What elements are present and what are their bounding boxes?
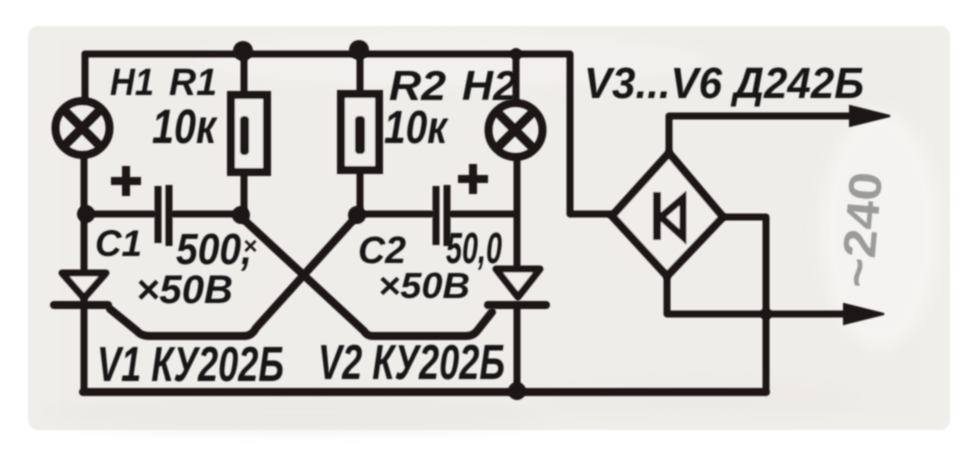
junction node at R2 top [349, 40, 369, 60]
wire: bridge right corner to right vertical down to bottom rail [724, 217, 766, 392]
wire: H2 bottom lead down through node to V2 anode [514, 158, 521, 270]
junction node A (R1 bottom / C1 / V2 gate) [232, 206, 250, 224]
wire: top rail [85, 51, 569, 58]
arrowhead bottom mains [844, 304, 884, 324]
wire: bottom rail [83, 388, 766, 396]
resistor R1 bottom lead [241, 171, 248, 214]
wire: V2 cathode down to bottom rail [514, 306, 521, 392]
svg-text:H2: H2 [462, 62, 517, 109]
thyristor V2 [488, 269, 546, 305]
wire: cross-coupling node B to V1 gate (diagonal, horizontal run) [110, 217, 356, 336]
svg-text:V2 КУ202Б: V2 КУ202Б [318, 336, 505, 390]
resistor R2 top lead [357, 54, 364, 94]
svg-text:10к: 10к [152, 101, 218, 154]
capacitor C1 plates [158, 185, 169, 246]
bridge diode symbol [657, 192, 683, 240]
svg-text:V3...V6 Д242Б: V3...V6 Д242Б [584, 59, 864, 108]
bridge rectifier V3-V6 diamond [612, 153, 723, 276]
svg-text:×50В: ×50В [378, 265, 470, 306]
svg-text:×: × [243, 233, 257, 260]
wire: top rail corner down to bridge AC-left input [570, 54, 612, 214]
resistor R1 [231, 95, 267, 172]
svg-text:R1: R1 [169, 62, 217, 104]
wire: C1 right plate to node A [174, 211, 240, 218]
capacitor C2 polarity plus [458, 164, 488, 194]
wire: C1 horizontal from left rail to plates [86, 211, 153, 218]
lamp H2 [489, 103, 543, 157]
wire: node B to C2 left plate [357, 211, 431, 218]
wire: bridge bottom corner down and arrow line to mains [667, 277, 845, 314]
svg-text:V1 КУ202Б: V1 КУ202Б [97, 338, 284, 392]
svg-text:C1: C1 [95, 223, 142, 264]
svg-text:H1: H1 [110, 62, 154, 104]
junction node crossing at right vertical [760, 308, 772, 320]
svg-text:~240: ~240 [830, 170, 892, 290]
svg-text:500,: 500, [176, 225, 252, 274]
thyristor V1 [54, 273, 108, 305]
wire: left vertical (H1 anode branch) [82, 54, 89, 100]
resistor R1 top lead [241, 54, 248, 96]
resistor R2 bottom lead [357, 169, 364, 214]
wire: bridge top corner up and arrow line to mains [669, 116, 851, 152]
svg-text:×50В: ×50В [136, 268, 233, 312]
resistor R2 [341, 94, 379, 170]
capacitor C1 polarity plus [111, 166, 141, 196]
junction node at H2 top [510, 48, 522, 60]
junction node at R1 top [233, 41, 253, 61]
junction node B (R2 bottom / C2 / V1 gate) [348, 206, 366, 224]
junction node left rail / C1 [77, 205, 95, 223]
lamp H2 top lead [513, 54, 520, 102]
junction node V2 cathode at bottom rail [508, 382, 526, 400]
lamp H1 [56, 101, 110, 155]
arrowhead top mains [850, 106, 890, 126]
svg-text:10к: 10к [384, 101, 449, 153]
wire: left vertical below lamp down to bottom rail [81, 158, 88, 392]
capacitor C2 plates [436, 185, 447, 246]
wire: cross-coupling node A to V2 gate (diagonal, horizontal run) [241, 217, 492, 336]
wire: C2 right plate to H2 branch [452, 211, 517, 218]
